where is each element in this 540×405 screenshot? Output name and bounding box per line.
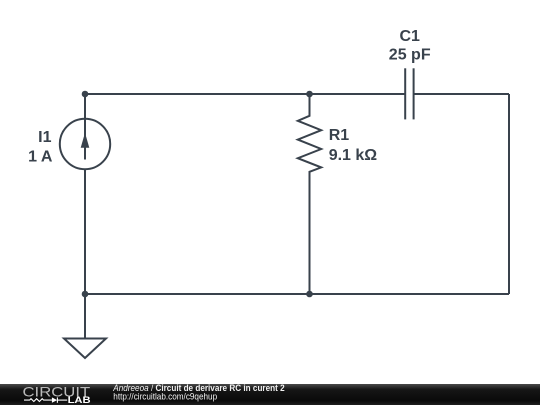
wire top (node A to C1 left plate): [85, 93, 405, 95]
wire ground stem: [84, 294, 86, 339]
svg-text:25 pF: 25 pF: [389, 46, 431, 63]
node A (top-left junction): [82, 91, 89, 98]
wire top-right (C1 right plate to corner): [414, 93, 509, 95]
footer bar: [0, 384, 540, 405]
svg-text:9.1 kΩ: 9.1 kΩ: [329, 147, 378, 164]
current source I1: [60, 119, 110, 169]
svg-text:R1: R1: [329, 127, 350, 144]
ground: [64, 339, 106, 359]
footer url line: [113, 391, 217, 402]
svg-text:I1: I1: [38, 129, 51, 146]
CircuitLab logo schematic line (resistor + diode): [24, 397, 67, 402]
node B (top-middle junction): [306, 91, 313, 98]
svg-text:http://circuitlab.com/c9qehup: http://circuitlab.com/c9qehup: [113, 391, 217, 402]
node C (bottom-left junction): [82, 291, 89, 298]
wire right vertical: [508, 94, 510, 294]
capacitor C1: [405, 68, 413, 119]
footer title line: [112, 382, 284, 393]
resistor R1: [298, 94, 321, 294]
node D (bottom-middle junction): [306, 291, 313, 298]
svg-text:C1: C1: [399, 28, 420, 45]
wire bottom: [85, 293, 509, 295]
svg-text:1 A: 1 A: [28, 149, 53, 166]
svg-text:LAB: LAB: [68, 395, 91, 405]
wire left vertical (through I1): [84, 94, 86, 294]
